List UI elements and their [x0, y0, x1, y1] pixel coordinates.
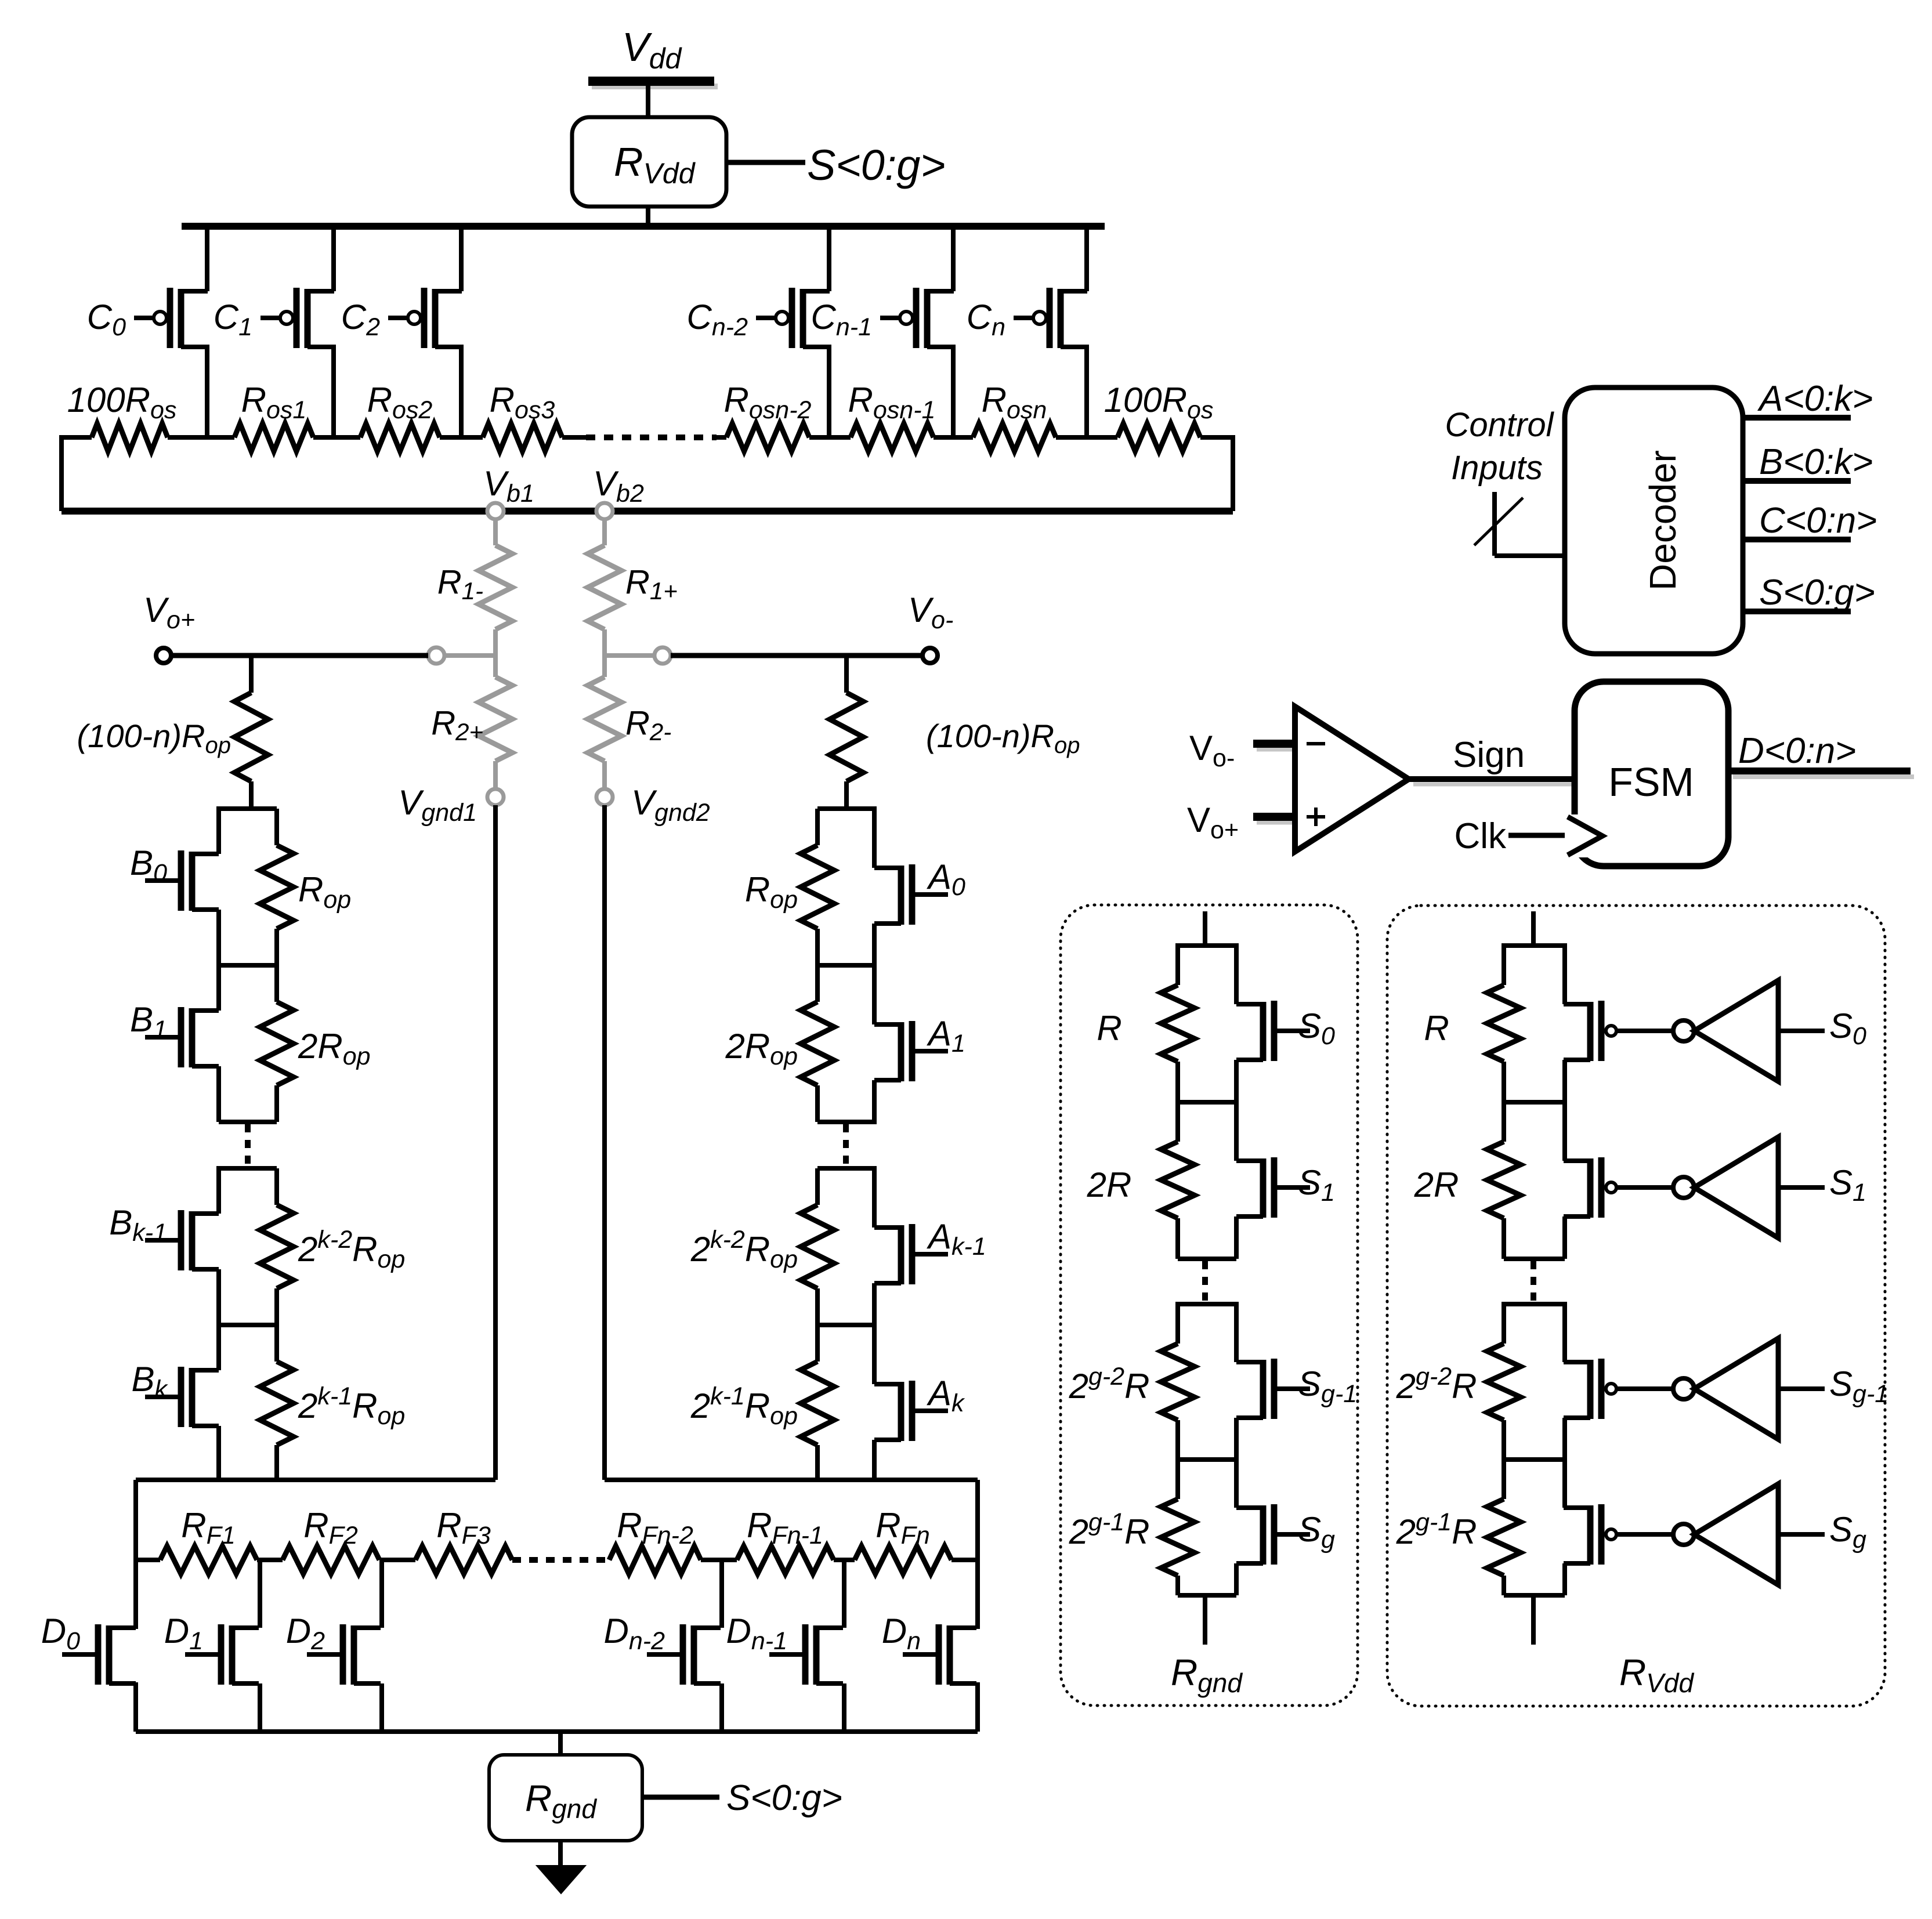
inverter driving PSg-1: [1616, 1338, 1888, 1439]
svg-text:C<0:n>: C<0:n>: [1759, 501, 1877, 541]
label RVdd implementation: [1619, 1652, 1694, 1698]
wire RF chain right end: [951, 1558, 978, 1562]
node Vo-: [908, 591, 953, 663]
resistor RF1: [160, 1506, 257, 1574]
transistor Bk-1 (NMOS binary switch): [109, 1166, 277, 1325]
transistor switch PSg (RVdd ladder, PMOS): [1564, 1457, 1616, 1595]
wire Vdd to RVdd box: [646, 86, 650, 117]
wire node Cn-1: [934, 435, 973, 440]
transistor D1 (NMOS shorting switch): [164, 1560, 260, 1732]
label Rgnd implementation: [1171, 1652, 1243, 1698]
wire Sign: [1409, 735, 1577, 784]
wire feedback right edge: [975, 1480, 980, 1629]
resistor R2+ (gray): [431, 677, 512, 789]
box Rgnd implementation (dotted): [1061, 905, 1358, 1706]
resistor R1- (gray): [437, 519, 512, 677]
resistor R (Rgnd ladder): [1097, 943, 1236, 1102]
label Vo- comparator input: [1189, 729, 1235, 772]
box RVdd implementation (dotted): [1387, 906, 1885, 1706]
wire RVdd ladder dots: [1531, 1261, 1536, 1303]
transistor B0 (NMOS binary switch): [130, 806, 277, 965]
node Vgnd1: [398, 783, 504, 827]
resistor Ros1: [234, 381, 313, 451]
wire Vo- line: [671, 653, 923, 658]
wire gray tap to Vo- line: [605, 653, 654, 658]
resistor 2^g-1 R (Rgnd ladder): [1069, 1457, 1236, 1595]
transistor switch S0 (Rgnd ladder): [1236, 943, 1335, 1102]
resistor (100-n)Rop left: [77, 693, 268, 809]
wire RF node n-1: [834, 1558, 855, 1562]
inverter driving PS1: [1616, 1137, 1866, 1238]
transistor C2 (PMOS offset switch): [341, 226, 462, 437]
wire Clk input with clock chevron: [1454, 814, 1604, 857]
transistor switch Sg-1 (Rgnd ladder): [1236, 1302, 1357, 1460]
node gray tap right: [654, 647, 671, 664]
wire junction to (100-n)Rop left: [249, 656, 254, 693]
resistor 2^g-2 R (RVdd ladder): [1396, 1302, 1565, 1460]
wire RF node 2: [379, 1558, 415, 1562]
wire decoder output A<0:k>: [1743, 379, 1873, 419]
resistor (100-n)Rop right: [830, 693, 1080, 809]
resistor Ros3: [483, 381, 562, 451]
resistor R (RVdd ladder): [1424, 943, 1565, 1102]
wire decoder output B<0:k>: [1743, 442, 1873, 482]
svg-text:Inputs: Inputs: [1451, 449, 1543, 487]
svg-text:2R: 2R: [1087, 1165, 1132, 1204]
wire bottom rail of offset DAC: [61, 508, 1233, 515]
resistor 2R (Rgnd ladder): [1087, 1100, 1236, 1259]
resistor 2^k-1 Rop: [260, 1325, 405, 1480]
resistor RF3: [415, 1506, 512, 1574]
wire feedback bottom rail: [136, 1682, 978, 1732]
block FSM: [1575, 682, 1728, 866]
wire chain continuation dots: [562, 435, 726, 440]
wire control input bus with slash: [1474, 492, 1565, 556]
resistor 2^k-2 Rop: [219, 1168, 405, 1325]
resistor 100Ros (right): [1104, 381, 1214, 451]
transistor Cn-2 (PMOS offset switch): [687, 226, 830, 437]
label Control Inputs: [1445, 406, 1555, 487]
wire Vo+ line: [171, 653, 428, 658]
wire decoder output C<0:n>: [1743, 501, 1877, 541]
transistor Cn-1 (PMOS offset switch): [811, 226, 954, 437]
op-amp comparator U1: [1295, 707, 1409, 852]
resistor RFn-1: [737, 1506, 834, 1574]
svg-text:A<0:k>: A<0:k>: [1757, 379, 1873, 419]
transistor switch Sg (Rgnd ladder): [1236, 1457, 1335, 1595]
transistor switch PSg-1 (RVdd ladder, PMOS): [1564, 1302, 1616, 1460]
ground symbol: [537, 1841, 585, 1893]
transistor switch S1 (Rgnd ladder): [1236, 1100, 1335, 1259]
block RVdd (programmable supply resistor): [572, 117, 726, 207]
transistor Ak (NMOS binary switch): [817, 1323, 965, 1480]
svg-text:R: R: [1097, 1009, 1121, 1048]
resistor R1+ (gray): [588, 519, 678, 677]
wire node C1: [313, 435, 360, 440]
svg-text:2R: 2R: [1414, 1165, 1459, 1204]
transistor C1 (PMOS offset switch): [214, 226, 334, 437]
wire RF chain left end: [136, 1558, 160, 1562]
wire RVdd to top rail: [646, 207, 650, 226]
wire RVdd ladder top stub: [1531, 911, 1536, 946]
svg-text:Decoder: Decoder: [1642, 450, 1684, 591]
wire RVdd select bus S<0:g>: [726, 160, 805, 165]
wire to Rgnd block: [558, 1732, 563, 1755]
node Vo+: [143, 591, 195, 663]
svg-text:Sign: Sign: [1453, 735, 1525, 775]
label S<0:g>: [807, 141, 946, 189]
transistor Bk (NMOS binary switch): [131, 1323, 277, 1480]
node gray tap left: [428, 647, 444, 664]
wire node C2: [440, 435, 483, 440]
resistor 2^k-1 Rop (A side): [690, 1325, 834, 1480]
wire Rgnd ladder bottom stub: [1203, 1595, 1207, 1645]
resistor 2Rop (A side): [725, 965, 877, 1122]
resistor Rop (A side): [745, 809, 877, 965]
resistor 2^g-2 R (Rgnd ladder): [1069, 1302, 1236, 1460]
resistor Ros2: [360, 381, 440, 451]
transistor D2 (NMOS shorting switch): [286, 1560, 382, 1732]
wire comparator input +: [1253, 817, 1298, 822]
power symbol Vdd: [588, 24, 718, 86]
svg-text:S<0:g>: S<0:g>: [1759, 573, 1875, 613]
svg-text:Control: Control: [1445, 406, 1555, 444]
wire Vgnd2 to feedback network: [602, 805, 607, 1480]
transistor switch PS0 (RVdd ladder, PMOS): [1564, 943, 1616, 1102]
wire comparator input -: [1253, 744, 1298, 749]
block Decoder: [1565, 388, 1743, 654]
wire Vgnd1 to feedback network: [493, 805, 498, 1480]
label Vo+ comparator input: [1187, 801, 1239, 844]
wire node Cn: [1056, 435, 1117, 440]
wire ladder continuation dots (B side): [245, 1124, 251, 1167]
transistor Dn-1 (NMOS shorting switch): [726, 1560, 845, 1732]
resistor RF2: [283, 1506, 379, 1574]
label S<0:g> bottom: [726, 1778, 842, 1818]
transistor Dn (NMOS shorting switch): [882, 1612, 976, 1685]
resistor RFn-2: [609, 1506, 701, 1574]
svg-text:R: R: [1424, 1009, 1449, 1048]
wire RVdd ladder bottom stub: [1531, 1595, 1536, 1645]
wire ladder continuation dots (A side): [843, 1124, 849, 1167]
resistor RFn: [855, 1506, 951, 1574]
resistor 2^g-1 R (RVdd ladder): [1396, 1457, 1565, 1595]
wire feedback top bar right: [605, 1478, 978, 1482]
wire Rgnd ladder top stub: [1203, 911, 1207, 946]
transistor Cn (PMOS offset switch): [967, 226, 1087, 437]
node Vb1: [483, 464, 534, 519]
resistor Rop: [219, 809, 351, 965]
svg-text:Clk: Clk: [1454, 816, 1507, 856]
resistor 100Ros (left): [67, 381, 177, 451]
wire RF node 1: [257, 1558, 283, 1562]
resistor 2^k-2 Rop (A side): [690, 1168, 877, 1325]
wire Rgnd ladder dots: [1202, 1261, 1208, 1303]
transistor A1 (NMOS binary switch): [817, 963, 965, 1122]
wire node Cn-2: [809, 435, 851, 440]
svg-text:FSM: FSM: [1608, 759, 1694, 805]
transistor Dn-2 (NMOS shorting switch): [604, 1560, 722, 1732]
wire feedback left edge: [133, 1480, 138, 1629]
resistor Rosn-1: [848, 381, 936, 451]
wire D<0:n> output: [1728, 731, 1914, 777]
transistor D0 (NMOS shorting switch): [41, 1612, 136, 1685]
transistor A0 (NMOS binary switch): [817, 806, 965, 965]
resistor Rosn-2: [724, 381, 812, 451]
wire node C0: [168, 435, 234, 440]
block Rgnd (programmable ground resistor): [489, 1755, 642, 1841]
transistor switch PS1 (RVdd ladder, PMOS): [1564, 1100, 1616, 1259]
svg-text:B<0:k>: B<0:k>: [1759, 442, 1873, 482]
wire offset chain right end: [1200, 435, 1233, 511]
wire top rail: [182, 223, 1105, 230]
wire RF chain dots: [512, 1557, 609, 1563]
svg-text:S<0:g>: S<0:g>: [726, 1778, 842, 1818]
wire offset chain left end: [61, 435, 92, 511]
inverter driving PSg: [1616, 1484, 1866, 1585]
svg-text:S<0:g>: S<0:g>: [807, 141, 946, 189]
wire decoder output S<0:g>: [1743, 573, 1875, 613]
transistor Ak-1 (NMOS binary switch): [817, 1166, 986, 1325]
node Vgnd2: [596, 783, 710, 827]
wire RF node n-2: [701, 1558, 737, 1562]
resistor 2R (RVdd ladder): [1414, 1100, 1565, 1259]
resistor R2- (gray): [588, 677, 671, 789]
transistor B1 (NMOS binary switch): [130, 963, 277, 1122]
svg-text:D<0:n>: D<0:n>: [1738, 731, 1856, 771]
node Vb2: [593, 464, 644, 519]
wire Rgnd select bus: [642, 1795, 719, 1800]
inverter driving PS0: [1616, 980, 1866, 1081]
wire gray tap to Vo+ line: [444, 653, 495, 658]
wire feedback top bar left: [136, 1478, 495, 1482]
transistor C0 (PMOS offset switch): [87, 226, 208, 437]
resistor 2Rop: [219, 965, 371, 1122]
wire junction to (100-n)Rop right: [844, 656, 849, 693]
resistor Rosn: [973, 381, 1056, 451]
